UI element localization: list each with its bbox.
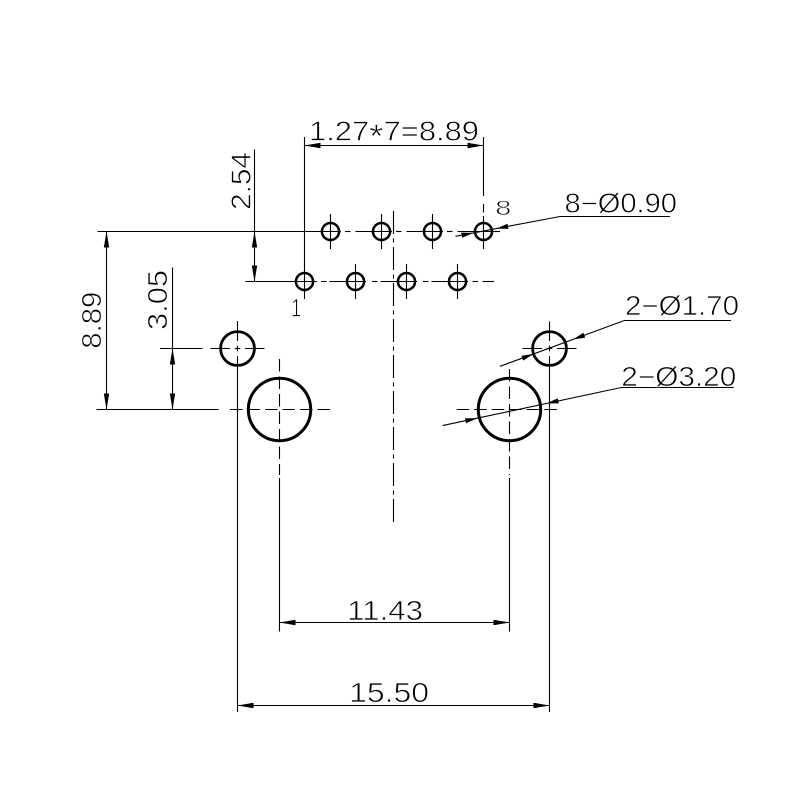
left Ø3.20 center lines xyxy=(230,409,333,411)
svg-text:15.50: 15.50 xyxy=(349,677,429,708)
dim 2.54 dimension line xyxy=(254,150,256,282)
pin hole 7 (bottom row) Ø0.90 xyxy=(449,273,466,290)
svg-text:2.54: 2.54 xyxy=(226,152,257,210)
top pad row center line y=231.5 xyxy=(98,231,341,233)
right Ø3.20 center lines xyxy=(457,409,562,411)
pin hole 1 (bottom row) Ø0.90 xyxy=(296,273,313,290)
leader 8-Ø0.90 xyxy=(456,217,671,237)
svg-text:8: 8 xyxy=(495,196,511,220)
right Ø3.20 hole xyxy=(478,378,540,440)
dim 8.89 dimension line xyxy=(106,232,108,410)
dim 3.05 dimension line xyxy=(172,268,174,410)
bottom pad row center line y=281.5 xyxy=(246,281,317,283)
svg-text:2−Ø1.70: 2−Ø1.70 xyxy=(625,290,739,321)
dim 15.50 dimension line xyxy=(238,705,550,707)
svg-text:1.27*7=8.89: 1.27*7=8.89 xyxy=(309,116,479,155)
left Ø1.70 center mark xyxy=(235,348,241,350)
svg-text:8−Ø0.90: 8−Ø0.90 xyxy=(565,188,678,219)
dim 11.43 extension lines xyxy=(279,478,281,632)
pin hole 6 (top row) Ø0.90 xyxy=(424,223,441,240)
svg-text:2−Ø3.20: 2−Ø3.20 xyxy=(621,361,736,392)
svg-text:11.43: 11.43 xyxy=(347,595,423,626)
dim 11.43 dimension line xyxy=(280,622,510,624)
svg-text:8.89: 8.89 xyxy=(76,292,107,349)
pin hole 2 (top row) Ø0.90 xyxy=(322,223,339,240)
dim 15.50 extension lines xyxy=(237,356,239,712)
central vertical axis center line xyxy=(393,211,395,524)
left Ø3.20 hole xyxy=(248,378,310,440)
svg-text:1: 1 xyxy=(291,294,301,322)
dim 1.27*7=8.89 dimension line xyxy=(305,145,484,147)
dim 3.05 extension line xyxy=(160,348,203,350)
leader 2-Ø1.70 xyxy=(500,321,731,367)
pin hole 5 (bottom row) Ø0.90 xyxy=(398,273,415,290)
dim 8.89 extension line (bottom) xyxy=(97,409,219,411)
pin hole 8 (top row) Ø0.90 xyxy=(475,223,492,240)
left Ø1.70 hole xyxy=(221,332,255,366)
dim 1.27*7=8.89 extension lines xyxy=(304,137,306,265)
pin hole 4 (top row) Ø0.90 xyxy=(373,223,390,240)
leader 2-Ø3.20 xyxy=(443,388,734,426)
right Ø1.70 hole xyxy=(533,332,567,366)
pin hole 3 (bottom row) Ø0.90 xyxy=(347,273,364,290)
svg-text:3.05: 3.05 xyxy=(142,270,173,330)
right Ø1.70 center mark xyxy=(547,348,553,350)
